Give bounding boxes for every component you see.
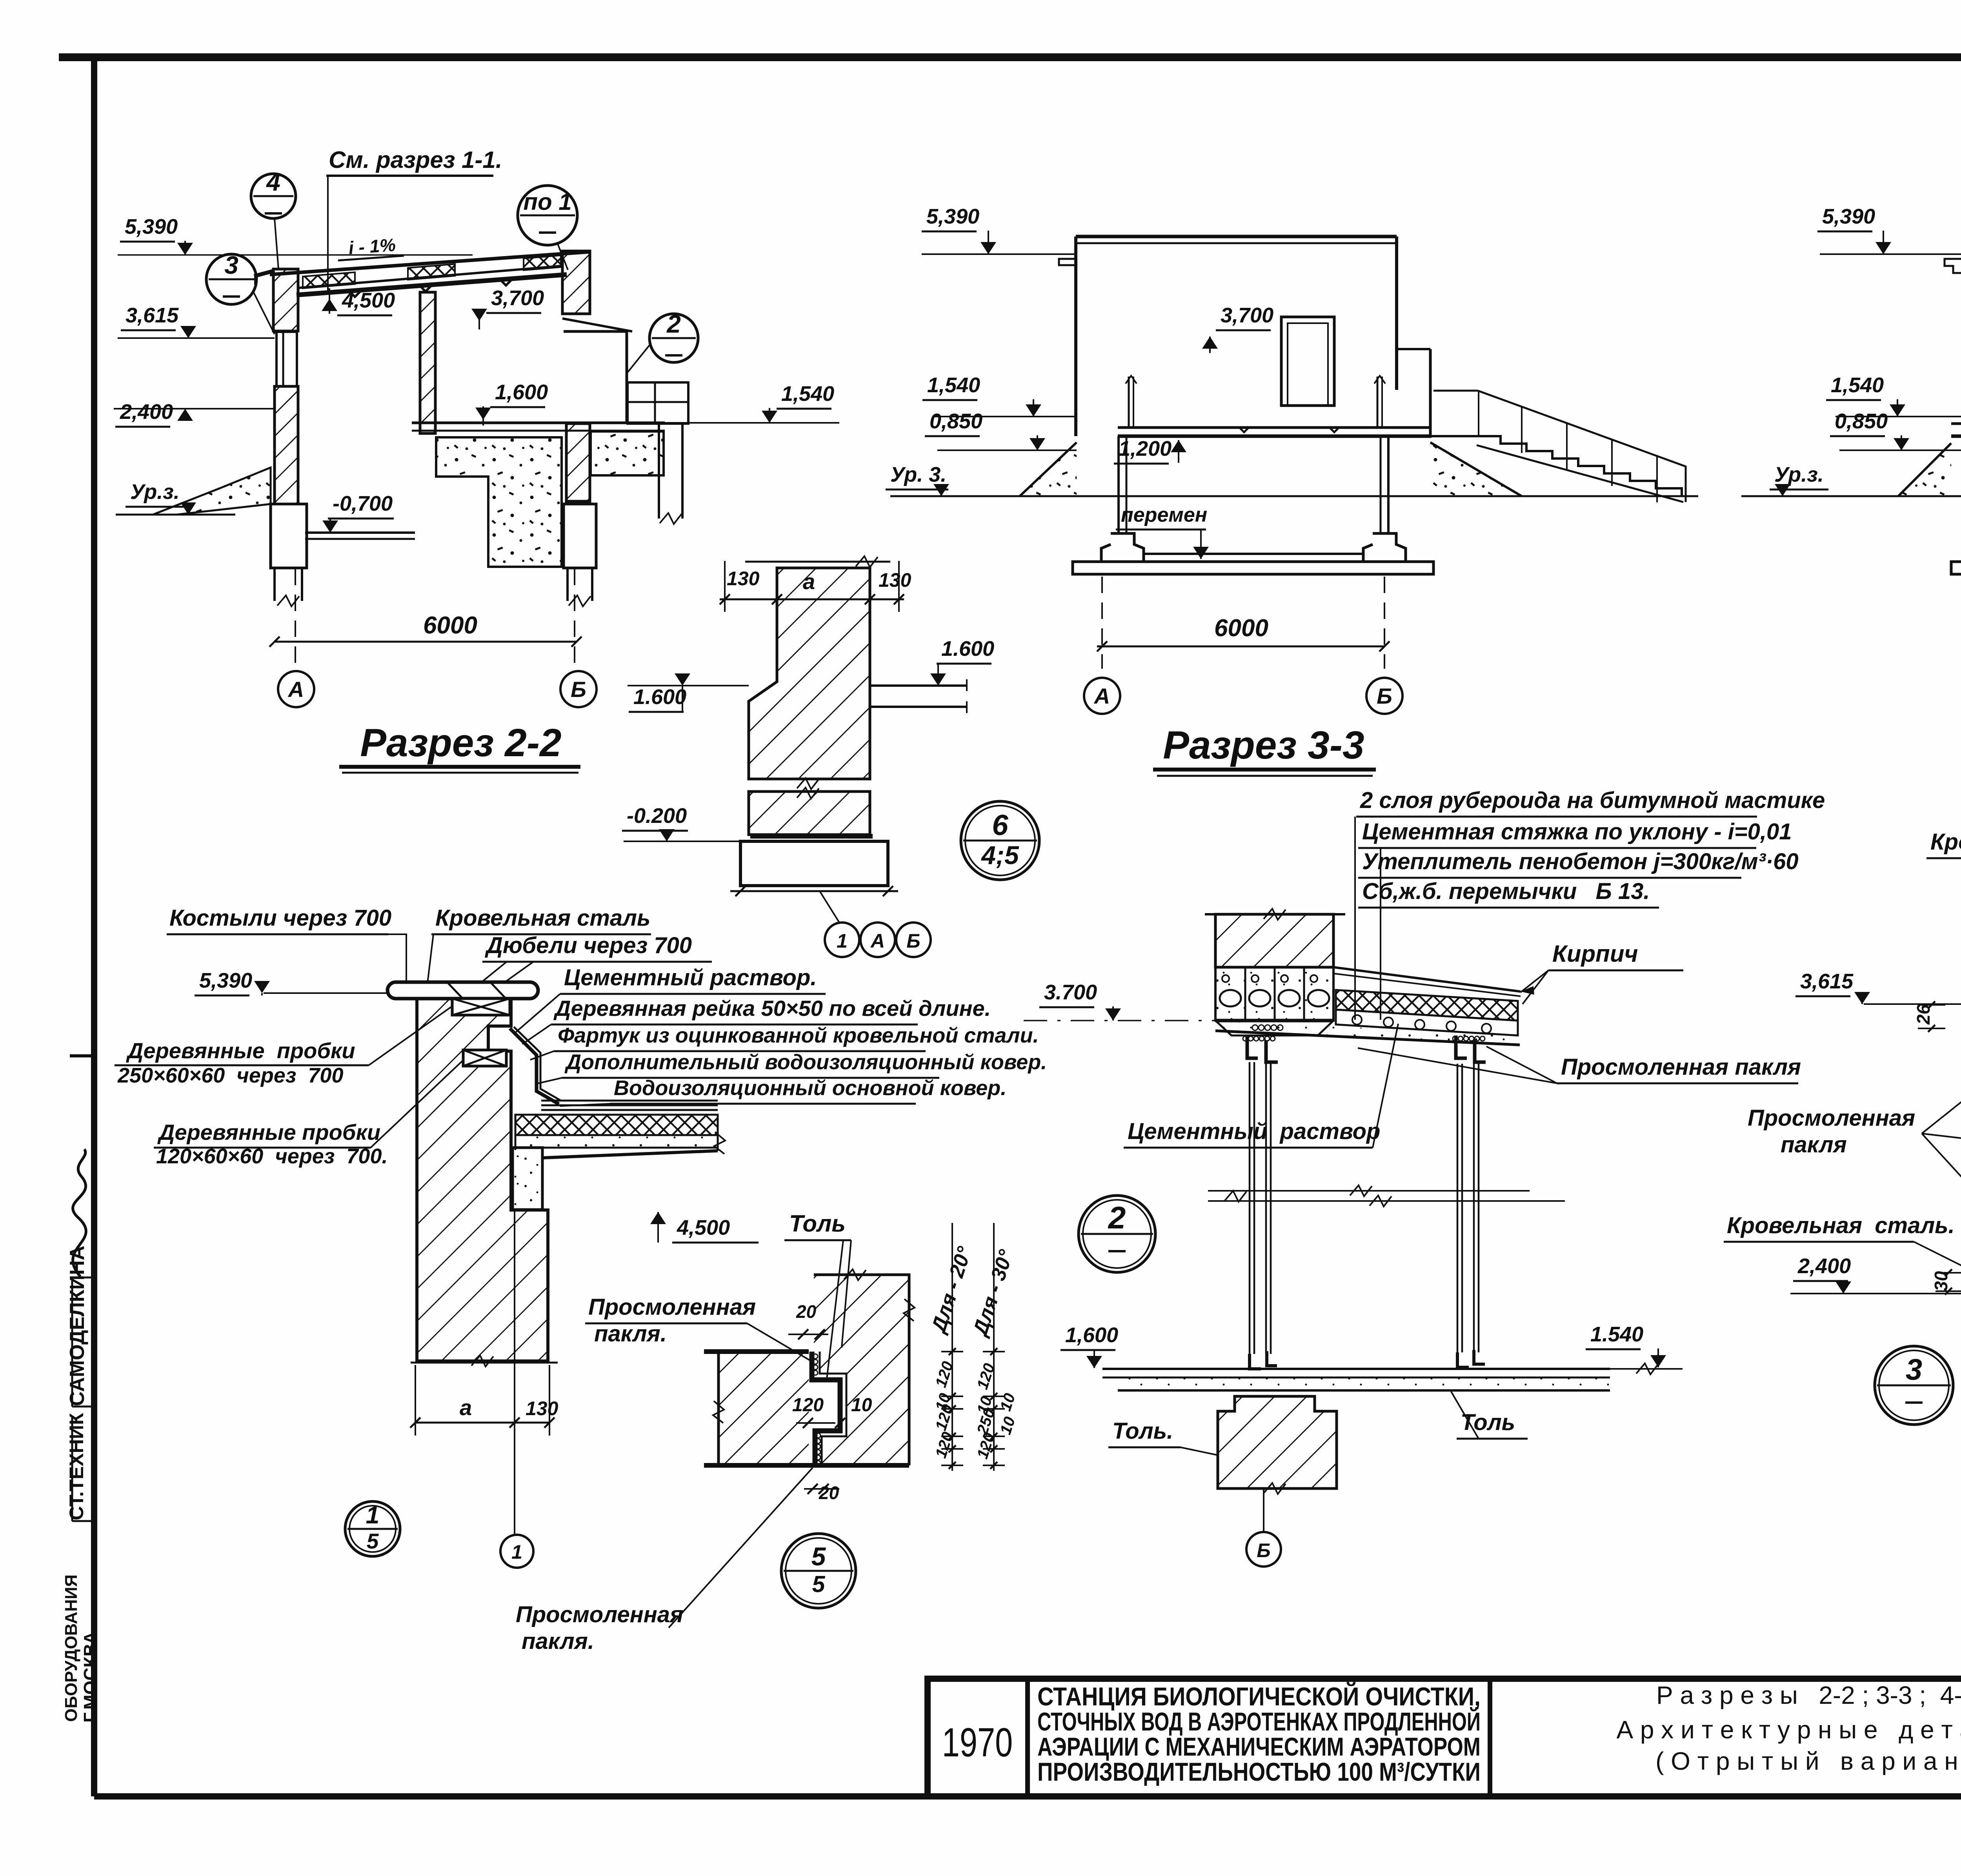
svg-text:5,390: 5,390 [125,215,178,238]
svg-text:Цементная стяжка по уклону - i: Цементная стяжка по уклону - i=0,01 [1362,819,1792,844]
svg-text:5: 5 [811,1542,826,1571]
svg-text:1,540: 1,540 [1831,373,1884,397]
svg-text:6000: 6000 [1214,615,1268,642]
svg-text:Ур.з.: Ур.з. [1774,463,1824,486]
svg-text:Просмоленная: Просмоленная [1748,1105,1915,1131]
svg-text:по 1: по 1 [523,189,571,215]
svg-text:250×60×60 через 700: 250×60×60 через 700 [117,1064,344,1087]
svg-text:Б: Б [1377,684,1392,708]
svg-text:Б: Б [906,930,920,952]
svg-text:Деревянная рейка 50×50 по всей: Деревянная рейка 50×50 по всей длине. [553,996,991,1021]
svg-text:Дюбели через 700: Дюбели через 700 [484,933,692,958]
svg-text:4,500: 4,500 [677,1216,730,1239]
svg-text:Толь.: Толь. [1112,1418,1173,1444]
svg-text:1: 1 [366,1502,379,1529]
svg-text:Ур.з.: Ур.з. [130,480,180,504]
svg-text:Кровельная сталь.: Кровельная сталь. [1727,1213,1955,1238]
svg-text:130: 130 [879,569,911,591]
svg-text:130: 130 [526,1397,558,1419]
svg-text:ПРОИЗВОДИТЕЛЬНОСТЬЮ 100 М³/СУТ: ПРОИЗВОДИТЕЛЬНОСТЬЮ 100 М³/СУТКИ [1037,1757,1481,1786]
svg-text:Р а з р е з ы 2-2 ; 3-3 ; 4: Р а з р е з ы 2-2 ; 3-3 ; 4-4. [1656,1681,1961,1709]
svg-text:20: 20 [819,1483,839,1503]
svg-text:пакля.: пакля. [594,1321,667,1346]
svg-text:3,700: 3,700 [1221,304,1273,327]
svg-text:a: a [460,1395,472,1420]
svg-text:Фартук из оцинкованной кровель: Фартук из оцинкованной кровельной стали. [558,1024,1039,1047]
svg-text:Разрез 3-3: Разрез 3-3 [1163,723,1364,767]
svg-text:ОБОРУДОВАНИЯ: ОБОРУДОВАНИЯ [62,1574,81,1722]
svg-text:1.540: 1.540 [1590,1323,1643,1346]
svg-text:5,390: 5,390 [926,205,979,228]
svg-text:А: А [870,930,885,952]
svg-text:2,400: 2,400 [1797,1254,1851,1278]
svg-text:А: А [287,677,304,702]
svg-text:3,615: 3,615 [1800,970,1854,993]
svg-text:Цементный раствор.: Цементный раствор. [564,965,817,990]
svg-text:пакля: пакля [1781,1132,1847,1157]
svg-text:1.600: 1.600 [941,637,994,661]
svg-text:Просмоленная пакля: Просмоленная пакля [1561,1054,1801,1080]
svg-text:3.700: 3.700 [1044,981,1097,1004]
svg-text:Деревянные пробки: Деревянные пробки [157,1120,380,1145]
svg-text:0,850: 0,850 [1835,409,1888,433]
svg-text:Кровельная сталь: Кровельная сталь [1930,829,1961,855]
svg-text:САМОДЕЛКИНА: САМОДЕЛКИНА [66,1246,89,1406]
svg-text:Деревянные пробки: Деревянные пробки [126,1038,355,1063]
svg-text:5,390: 5,390 [1822,205,1875,228]
svg-text:Б: Б [571,677,586,702]
svg-text:Сб,ж.б. перемычки Б 13.: Сб,ж.б. перемычки Б 13. [1362,879,1650,904]
svg-text:a: a [803,569,815,594]
svg-text:20: 20 [796,1301,817,1322]
svg-text:Б: Б [1257,1539,1270,1561]
svg-text:120: 120 [792,1395,824,1416]
svg-text:Костыли через 700: Костыли через 700 [169,905,391,931]
svg-text:АЭРАЦИИ С МЕХАНИЧЕСКИМ АЭРАТОР: АЭРАЦИИ С МЕХАНИЧЕСКИМ АЭРАТОРОМ [1037,1732,1481,1761]
svg-text:пакля.: пакля. [522,1629,594,1654]
svg-text:1,540: 1,540 [927,373,980,397]
svg-text:3: 3 [224,251,238,279]
svg-text:Г.МОСКВА: Г.МОСКВА [80,1631,100,1723]
svg-text:Ур. 3.: Ур. 3. [890,463,946,486]
svg-text:5,390: 5,390 [199,969,252,992]
svg-text:6: 6 [992,809,1008,841]
svg-text:См. разрез 1-1.: См. разрез 1-1. [329,147,502,173]
svg-text:Цементный раствор: Цементный раствор [1128,1119,1381,1144]
svg-text:1: 1 [511,1541,522,1563]
svg-text:( О т р ы т ы й в а р и а н: ( О т р ы т ы й в а р и а н т ) [1655,1747,1961,1775]
svg-text:Утеплитель пенобетон ј=300кг/м: Утеплитель пенобетон ј=300кг/м³·60 [1362,849,1799,874]
svg-text:3,700: 3,700 [491,286,544,310]
svg-text:4;5: 4;5 [980,841,1019,870]
svg-text:130: 130 [727,568,760,590]
svg-text:перемен: перемен [1121,504,1207,526]
svg-text:6000: 6000 [423,612,477,639]
svg-text:1,540: 1,540 [781,382,834,406]
svg-text:10: 10 [851,1395,872,1416]
svg-text:Толь: Толь [789,1210,846,1237]
svg-text:-0,700: -0,700 [333,492,393,515]
svg-text:СТАНЦИЯ БИОЛОГИЧЕСКОЙ ОЧИСТКИ,: СТАНЦИЯ БИОЛОГИЧЕСКОЙ ОЧИСТКИ, [1037,1681,1481,1711]
svg-text:Кровельная сталь: Кровельная сталь [435,905,650,931]
svg-text:4: 4 [266,168,280,196]
svg-text:СТОЧНЫХ ВОД В АЭРОТЕНКАХ ПРОДЛ: СТОЧНЫХ ВОД В АЭРОТЕНКАХ ПРОДЛЕННОЙ [1037,1707,1481,1736]
svg-text:4,500: 4,500 [342,289,395,312]
svg-text:Водоизоляционный основной кове: Водоизоляционный основной ковер. [614,1076,1006,1100]
svg-text:2: 2 [666,310,681,338]
svg-text:3: 3 [1906,1353,1922,1387]
svg-text:3,615: 3,615 [126,304,179,327]
svg-text:А р х и т е к т у р н ы е д: А р х и т е к т у р н ы е д е т а л и. [1616,1716,1961,1744]
svg-text:2: 2 [1108,1200,1126,1235]
svg-text:1,200: 1,200 [1119,437,1172,460]
svg-text:2,400: 2,400 [120,400,173,424]
svg-text:1: 1 [837,930,848,952]
svg-text:Кирпич: Кирпич [1552,941,1638,967]
svg-text:2 слоя рубероида на битумной м: 2 слоя рубероида на битумной мастике [1360,788,1825,813]
svg-text:Дополнительный водоизоляционны: Дополнительный водоизоляционный ковер. [564,1050,1047,1074]
svg-text:А: А [1093,684,1110,708]
svg-text:1,600: 1,600 [1065,1323,1118,1347]
svg-text:-0.200: -0.200 [627,804,687,828]
svg-text:5: 5 [367,1529,379,1553]
svg-text:1970: 1970 [942,1720,1013,1765]
svg-text:1.600: 1.600 [633,685,686,709]
svg-text:Просмоленная: Просмоленная [516,1602,683,1627]
svg-text:1,600: 1,600 [495,380,548,404]
svg-text:5: 5 [812,1571,826,1597]
svg-text:СТ.ТЕХНИК: СТ.ТЕХНИК [65,1413,87,1520]
svg-text:Разрез 2-2: Разрез 2-2 [360,721,561,765]
svg-text:Просмоленная: Просмоленная [588,1294,756,1320]
svg-text:0,850: 0,850 [930,409,982,433]
